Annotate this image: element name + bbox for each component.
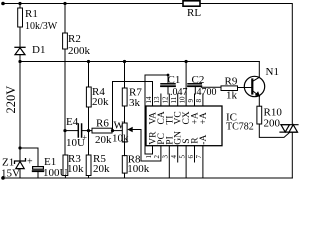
- svg-text:R6: R6: [96, 118, 109, 130]
- wire left rail to Z1: [19, 148, 21, 161]
- wire C branch down to pin 10: [185, 62, 187, 95]
- node junction E4 left: [63, 129, 66, 132]
- capacitor C2: [188, 83, 201, 85]
- svg-text:20k: 20k: [93, 163, 110, 175]
- pin 1 stub: [152, 146, 154, 154]
- wire top rail to R1: [19, 4, 21, 9]
- resistor R8: [122, 156, 127, 174]
- svg-text:200k: 200k: [68, 45, 91, 57]
- pin numbers bottom row: [145, 155, 203, 159]
- wire C2 bottom to pin 9: [194, 87, 196, 94]
- svg-text:100U: 100U: [43, 167, 68, 179]
- wire R7 to W: [124, 106, 126, 123]
- node junction R2 top: [63, 2, 66, 5]
- emitter with arrow: [252, 91, 258, 96]
- wire R10 to triac gate: [259, 124, 290, 137]
- svg-text:3k: 3k: [129, 97, 141, 109]
- svg-text:20k: 20k: [95, 134, 112, 146]
- wire top rail to R2: [64, 4, 66, 34]
- capacitor E1 electrolytic: [33, 167, 44, 170]
- svg-text:TC782: TC782: [226, 122, 254, 133]
- svg-text:8: 8: [195, 99, 203, 103]
- wire C1 top to pin 1: [145, 75, 168, 154]
- pin 8 stub: [202, 94, 204, 106]
- svg-text:12: 12: [162, 96, 170, 104]
- wire wiper down to pin 2: [141, 130, 161, 162]
- node junction VA feed: [111, 129, 114, 132]
- svg-text:4: 4: [170, 155, 178, 159]
- svg-text:100k: 100k: [127, 163, 150, 175]
- svg-text:R2: R2: [68, 33, 81, 45]
- pin 6 stub: [194, 146, 196, 162]
- pin 7 stub to bottom rail: [202, 146, 204, 178]
- svg-text:1: 1: [145, 155, 153, 159]
- wire C2 to R9: [201, 86, 221, 88]
- resistor R1: [18, 8, 23, 27]
- wire W to R8: [124, 142, 126, 156]
- svg-text:W: W: [114, 120, 125, 132]
- triac left triangle: [281, 125, 290, 132]
- wire E1 branch: [20, 148, 38, 167]
- node AC input top terminal: [1, 2, 5, 6]
- svg-text:200: 200: [264, 118, 281, 130]
- wire R4 branch: [88, 62, 90, 88]
- wire R1 to D1: [19, 27, 21, 47]
- node junction R4 R5 column: [87, 129, 90, 132]
- node junction R4 top: [87, 60, 90, 63]
- relay RL: [183, 1, 200, 6]
- resistor R9: [221, 86, 238, 91]
- wire bottom rail: [3, 177, 293, 179]
- wire R7 branch: [124, 62, 126, 89]
- pin numbers top row: [145, 96, 203, 104]
- wire R5 branch: [88, 131, 90, 155]
- pin 10 stub: [185, 94, 187, 106]
- pin 3 stub to bottom rail: [168, 146, 170, 178]
- wiper arrow of W: [130, 129, 141, 131]
- pin 14 stub: [152, 94, 154, 106]
- svg-text:C1: C1: [168, 74, 181, 86]
- node junction D1 bottom: [18, 60, 21, 63]
- svg-text:R1: R1: [25, 8, 38, 20]
- resistor R3: [63, 155, 68, 176]
- pin 13 stub: [160, 94, 162, 106]
- svg-text:C2: C2: [192, 74, 205, 86]
- wire DC rail horizontal: [20, 61, 259, 63]
- node junction C branch top: [185, 60, 188, 63]
- node C1 top: [167, 74, 170, 77]
- triac top bar: [281, 124, 298, 126]
- wire right rail below triac: [291, 132, 293, 178]
- wire R4 to R6 row: [88, 107, 90, 131]
- svg-text:2: 2: [153, 155, 161, 159]
- svg-text:+: +: [27, 157, 33, 168]
- resistor R7: [122, 88, 127, 106]
- pin 4 stub: [177, 146, 179, 162]
- svg-text:N1: N1: [266, 66, 279, 78]
- node AC input bottom terminal: [1, 176, 5, 180]
- svg-text:-A: -A: [199, 135, 209, 145]
- resistor R4: [86, 87, 91, 107]
- node junction R7 top: [123, 60, 126, 63]
- svg-text:E4: E4: [66, 116, 79, 128]
- triac bottom bar: [280, 131, 297, 133]
- wire C1 bottom to pin 12: [167, 87, 169, 94]
- resistor R6: [92, 128, 112, 133]
- wire left rail D1 to E1 branch: [19, 62, 21, 149]
- svg-text:20k: 20k: [92, 96, 109, 108]
- resistor R5: [86, 155, 91, 176]
- wire R6 to W: [112, 130, 122, 132]
- svg-text:+A: +A: [199, 112, 209, 124]
- svg-text:15V: 15V: [1, 168, 20, 180]
- svg-text:RL: RL: [187, 7, 201, 19]
- capacitor E4: [78, 124, 81, 137]
- pin 11 stub: [177, 94, 179, 106]
- wire R3 branch: [64, 131, 66, 155]
- svg-text:10k: 10k: [67, 163, 84, 175]
- triac right triangle: [289, 125, 298, 132]
- collector wire from DC rail: [258, 62, 260, 78]
- svg-text:9: 9: [187, 99, 195, 103]
- svg-text:10U: 10U: [66, 137, 85, 149]
- wire VA feed up and right to pin 14: [113, 82, 153, 131]
- IC top pin labels: [149, 111, 209, 124]
- svg-text:13: 13: [153, 96, 161, 104]
- svg-text:10k: 10k: [112, 133, 129, 145]
- wire E4 right to R6: [82, 130, 92, 132]
- svg-text:.047: .047: [170, 87, 188, 98]
- zener Z1: [15, 159, 26, 164]
- wire emitter to R10: [258, 96, 260, 106]
- svg-text:4700: 4700: [197, 87, 217, 98]
- svg-text:220V: 220V: [4, 86, 18, 114]
- svg-text:14: 14: [145, 96, 153, 104]
- capacitor C1: [161, 83, 175, 85]
- node junction top-left: [18, 2, 21, 5]
- svg-text:5: 5: [178, 155, 186, 159]
- node junction E1 branch: [18, 146, 21, 149]
- pin 12 stub: [168, 94, 170, 106]
- svg-text:D1: D1: [32, 44, 45, 56]
- svg-text:3: 3: [162, 155, 170, 159]
- svg-text:R9: R9: [225, 76, 238, 88]
- diode D1: [15, 46, 25, 48]
- pin 9 stub: [194, 94, 196, 106]
- svg-text:10k/3W: 10k/3W: [25, 21, 58, 32]
- transistor N1: [244, 76, 264, 96]
- wire R9 to base: [238, 87, 253, 89]
- IC bottom pin labels: [149, 131, 209, 145]
- wire top rail right of RL and right rail down to triac: [200, 4, 292, 125]
- resistor R2: [63, 33, 68, 49]
- IC U1 TC782 box: [146, 106, 222, 146]
- potentiometer W: [122, 123, 127, 142]
- svg-text:7: 7: [195, 155, 203, 159]
- wire R2 down to E4 row: [64, 49, 66, 131]
- wire E4 left: [65, 130, 78, 132]
- wire top rail left of RL: [3, 3, 184, 5]
- svg-text:6: 6: [187, 155, 195, 159]
- resistor R10: [257, 106, 262, 124]
- pin 5 stub to bottom rail: [185, 146, 187, 178]
- svg-text:1k: 1k: [226, 90, 238, 102]
